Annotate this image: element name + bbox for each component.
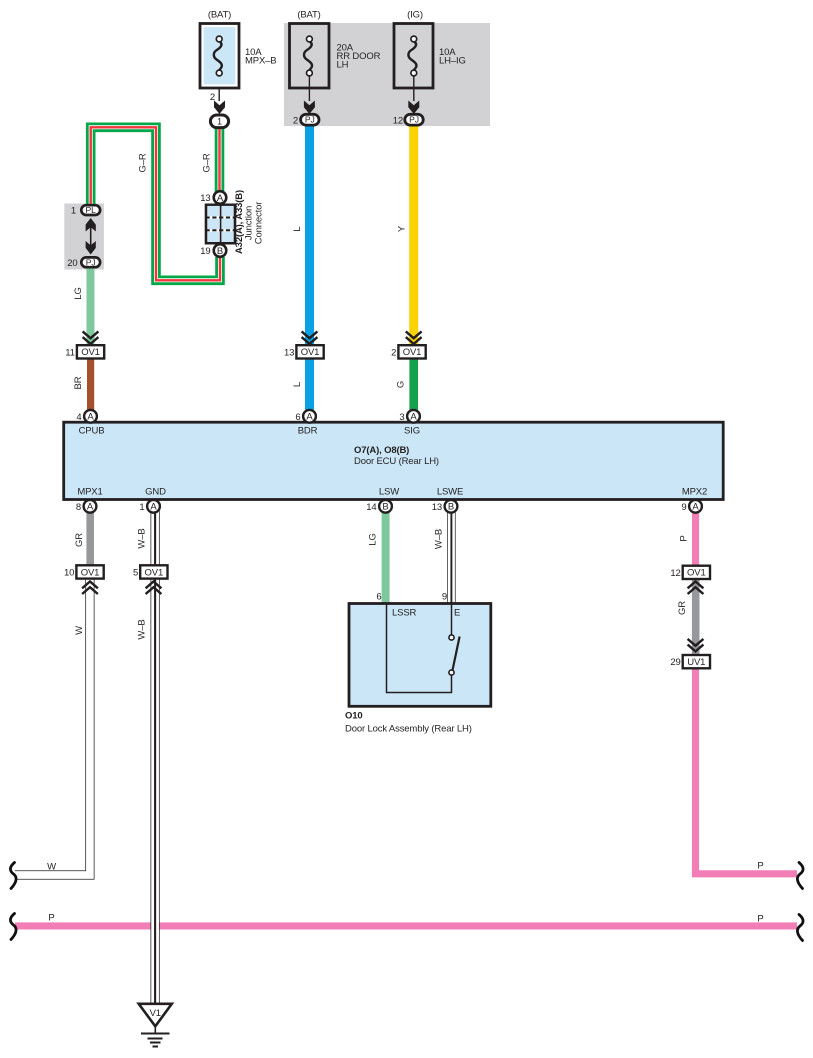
svg-text:BDR: BDR <box>298 426 318 437</box>
svg-text:P: P <box>757 913 763 924</box>
fuse lead line fuse2 <box>308 76 310 101</box>
svg-text:W–B: W–B <box>137 619 148 639</box>
svg-text:1: 1 <box>139 502 144 513</box>
svg-text:UV1: UV1 <box>687 657 705 668</box>
wire BR from OV1(11) to pin 4 <box>87 358 94 411</box>
svg-text:P: P <box>48 912 54 923</box>
OV1 box (2) <box>398 345 425 358</box>
svg-text:GND: GND <box>145 487 166 498</box>
svg-text:B: B <box>382 502 388 513</box>
svg-text:OV1: OV1 <box>403 347 422 358</box>
svg-text:BR: BR <box>73 376 84 389</box>
junction oval B (19) <box>214 244 227 257</box>
wire LG LSW to door lock box <box>382 510 390 604</box>
svg-text:(IG): (IG) <box>407 10 423 21</box>
svg-text:OV1: OV1 <box>145 567 164 578</box>
connector oval PJ (20) <box>81 257 100 267</box>
svg-text:CPUB: CPUB <box>79 426 105 437</box>
chevron on Y wire <box>406 331 422 344</box>
svg-text:LSWE: LSWE <box>437 487 463 498</box>
svg-text:Door ECU (Rear LH): Door ECU (Rear LH) <box>354 456 439 467</box>
svg-text:Y: Y <box>397 225 408 232</box>
svg-text:8: 8 <box>76 502 81 513</box>
chevron down above UV1(29) <box>688 639 704 652</box>
svg-text:LSW: LSW <box>379 487 399 498</box>
OV1 box (11) <box>77 345 104 358</box>
wire GR gray MPX1 to OV1(10) <box>86 510 94 566</box>
gray panel (junction block, top right) <box>284 23 490 126</box>
wire W from OV1(10) to left edge <box>15 579 90 875</box>
connector oval PL (1) <box>81 205 100 215</box>
svg-text:9: 9 <box>681 502 686 513</box>
svg-text:12: 12 <box>393 116 403 127</box>
junction connector box A32/A33 <box>206 205 236 243</box>
fuse element F2 <box>304 36 312 76</box>
svg-text:LG: LG <box>73 287 84 299</box>
ECU pin oval B (14) <box>379 500 392 513</box>
double arrow between PL and PJ <box>86 218 96 255</box>
door lock switch internals <box>387 605 460 693</box>
svg-text:W–B: W–B <box>434 529 445 549</box>
svg-text:6: 6 <box>376 592 381 603</box>
svg-text:(BAT): (BAT) <box>297 10 320 21</box>
fuse box 10A LH-IG <box>394 24 433 89</box>
chevron up below OV1(5) <box>146 582 162 595</box>
svg-text:SIG: SIG <box>404 426 420 437</box>
svg-text:LSSR: LSSR <box>392 608 417 619</box>
svg-text:2: 2 <box>293 116 298 127</box>
OV1 box (5) <box>140 565 167 578</box>
connector oval PJ (12) <box>405 114 423 125</box>
svg-text:4: 4 <box>76 412 81 423</box>
fuse lead line fuse3 <box>413 76 415 101</box>
svg-text:G–R: G–R <box>202 153 213 172</box>
ground symbol V1 <box>139 1004 172 1047</box>
ECU box O7(A) O8(B) <box>64 422 724 499</box>
svg-text:9: 9 <box>442 592 447 603</box>
svg-text:1: 1 <box>71 206 76 217</box>
svg-text:Connector: Connector <box>253 202 264 244</box>
arrow into PJ (12) <box>408 101 419 115</box>
OV1 box (13) <box>296 345 323 358</box>
fuse lead line fuse1 <box>218 76 220 101</box>
svg-text:19: 19 <box>200 246 210 257</box>
svg-text:L: L <box>292 382 303 387</box>
squiggle right P lower <box>797 915 803 941</box>
connector oval PJ (2) <box>301 114 319 125</box>
svg-text:PL: PL <box>86 205 97 215</box>
junction oval A (13) <box>214 191 227 204</box>
svg-text:A: A <box>217 193 224 204</box>
svg-text:13: 13 <box>200 193 210 204</box>
squiggle left P <box>10 914 16 940</box>
wire P pink MPX2 to OV1(12) <box>692 510 699 567</box>
svg-text:P: P <box>679 535 690 541</box>
svg-text:B: B <box>217 246 223 257</box>
svg-text:W: W <box>74 626 85 635</box>
svg-text:(BAT): (BAT) <box>208 10 231 21</box>
arrow into connector 1 <box>214 101 225 115</box>
svg-text:LG: LG <box>368 533 379 545</box>
wire G-R loop from junction B to PL <box>91 127 220 280</box>
svg-text:12: 12 <box>670 568 680 579</box>
svg-text:W: W <box>47 861 56 872</box>
svg-text:OV1: OV1 <box>81 347 100 358</box>
svg-text:L: L <box>292 226 303 231</box>
svg-text:2: 2 <box>391 347 396 358</box>
svg-text:3: 3 <box>399 412 404 423</box>
ECU pin oval A (8) <box>84 500 97 513</box>
svg-text:1: 1 <box>217 117 222 127</box>
svg-text:A: A <box>410 412 417 423</box>
svg-text:10: 10 <box>64 567 74 578</box>
ECU pin oval A (1) <box>147 500 160 513</box>
svg-text:Door Lock Assembly (Rear LH): Door Lock Assembly (Rear LH) <box>345 723 472 734</box>
wire P pink long horizontal <box>15 922 797 929</box>
ECU pin oval A (9) <box>689 500 702 513</box>
squiggle left W <box>10 863 16 889</box>
squiggle right P upper <box>797 863 803 889</box>
UV1 box (29) <box>683 655 710 668</box>
svg-text:2: 2 <box>210 92 215 103</box>
svg-text:A: A <box>306 412 313 423</box>
svg-text:OV1: OV1 <box>687 568 706 579</box>
svg-text:V1: V1 <box>150 1008 161 1019</box>
svg-text:OV1: OV1 <box>301 347 320 358</box>
chevron up below OV1(10) <box>82 582 98 595</box>
svg-text:P: P <box>757 860 763 871</box>
svg-text:A: A <box>87 502 94 513</box>
chevron up below OV1(12) <box>688 582 704 595</box>
ECU pin oval A (4) <box>84 410 97 423</box>
svg-text:B: B <box>448 502 454 513</box>
connector oval 1 <box>210 115 228 128</box>
svg-text:A: A <box>150 502 157 513</box>
svg-text:G–R: G–R <box>138 153 149 172</box>
fuse box 10A MPX-B <box>200 24 239 89</box>
fuse element F3 <box>408 36 416 76</box>
arrow into PJ (2) <box>304 101 315 115</box>
svg-text:OV1: OV1 <box>81 567 100 578</box>
gray panel (left PL/PJ connector block) <box>64 204 104 270</box>
svg-text:6: 6 <box>295 412 300 423</box>
wire L (blue) fuse to pin 6 <box>305 126 314 411</box>
door lock assembly box O10 <box>349 604 491 707</box>
wire W-B from GND pin to ground V1 <box>151 510 160 1003</box>
wire G-R from connector 1 to junction A <box>215 121 225 197</box>
svg-text:W–B: W–B <box>137 528 148 548</box>
ECU pin oval A (6) <box>303 410 316 423</box>
svg-text:MPX1: MPX1 <box>77 487 102 498</box>
wire GR gray OV1(12) to UV1(29) <box>692 578 700 656</box>
svg-text:E: E <box>454 608 460 619</box>
svg-text:5: 5 <box>133 567 138 578</box>
svg-text:13: 13 <box>432 502 442 513</box>
chevron on L wire <box>302 331 318 344</box>
svg-text:O7(A), O8(B): O7(A), O8(B) <box>354 445 409 456</box>
svg-text:O10: O10 <box>345 710 363 721</box>
svg-text:GR: GR <box>74 533 85 547</box>
svg-text:11: 11 <box>65 347 75 358</box>
svg-text:14: 14 <box>366 502 376 513</box>
svg-text:A: A <box>692 502 699 513</box>
fuse box 20A RR DOOR LH <box>290 24 330 89</box>
svg-text:PJ: PJ <box>305 115 315 125</box>
chevron on LG wire <box>83 331 99 344</box>
svg-text:GR: GR <box>677 601 688 615</box>
svg-text:29: 29 <box>670 657 680 668</box>
svg-text:PJ: PJ <box>86 257 96 267</box>
svg-text:A: A <box>87 412 94 423</box>
svg-text:PJ: PJ <box>409 115 419 125</box>
wire W-B from LSWE to door lock box <box>447 510 455 604</box>
wire LG from PJ to OV1(11) <box>87 262 95 346</box>
fuse element F1 <box>214 36 222 76</box>
svg-text:20: 20 <box>67 258 77 269</box>
svg-text:G: G <box>396 381 407 388</box>
wire G (green) OV1(2) to pin 3 <box>409 358 418 411</box>
ECU pin oval B (13) <box>445 500 458 513</box>
ECU pin oval A (3) <box>407 410 420 423</box>
wire P pink from UV1(29) to right edge <box>696 668 798 874</box>
wire Y (yellow) fuse to OV1(2) <box>409 126 418 346</box>
OV1 box (10) <box>76 565 103 578</box>
OV1 box (12) <box>683 566 710 579</box>
svg-text:MPX2: MPX2 <box>682 487 707 498</box>
svg-text:13: 13 <box>284 347 294 358</box>
